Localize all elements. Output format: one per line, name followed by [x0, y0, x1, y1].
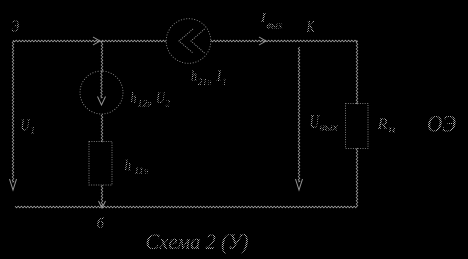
svg-text:б: б: [97, 216, 105, 232]
wire middle branch lower (h11э to bottom rail): [101, 185, 103, 206]
wire top rail right (current source to node К corner): [211, 40, 357, 42]
voltage arrow Uвых: [296, 47, 303, 190]
svg-text:21э: 21э: [198, 78, 212, 88]
svg-text:h: h: [131, 90, 137, 107]
label h21э I1: [191, 68, 227, 88]
wire right drop lower (Rн bottom to bottom rail): [356, 148, 358, 207]
current direction arrow at base node Б: [99, 201, 106, 208]
svg-text:12э: 12э: [138, 100, 152, 110]
svg-text:I: I: [216, 68, 223, 85]
svg-text:2: 2: [166, 100, 171, 110]
svg-text:1: 1: [31, 126, 36, 137]
svg-text:1: 1: [223, 78, 227, 88]
dependent voltage source circle h12э·U2: [80, 71, 123, 114]
svg-text:Э: Э: [12, 17, 20, 36]
voltage arrow U1: [10, 41, 17, 190]
resistor h11э: [89, 142, 112, 186]
svg-text:вых: вых: [267, 20, 283, 32]
current direction arrow Iвых: [259, 37, 266, 45]
wire right drop upper (К corner to Rн top): [356, 41, 358, 104]
wire middle branch upper (node to voltage source): [101, 41, 103, 72]
wire bottom rail (Б rail): [15, 206, 357, 208]
label h11э: [125, 158, 149, 178]
label h12э U2: [131, 90, 171, 110]
svg-text:h: h: [125, 158, 132, 175]
resistor Rн: [346, 104, 369, 149]
label Rн: [376, 116, 395, 136]
label U1: [21, 116, 36, 137]
label Iвых: [259, 11, 282, 32]
wire top rail left (node Э to current source): [13, 40, 166, 42]
svg-text:вых: вых: [320, 123, 339, 134]
svg-text:н: н: [389, 125, 396, 136]
svg-text:U: U: [21, 116, 31, 135]
svg-text:Схема 2 (У): Схема 2 (У): [146, 229, 249, 254]
svg-text:К: К: [306, 17, 316, 36]
svg-text:R: R: [376, 116, 388, 133]
svg-text:h: h: [191, 68, 197, 85]
svg-text:11э: 11э: [134, 167, 149, 177]
dependent current source circle h21э·I1: [166, 19, 211, 64]
label Uвых: [310, 112, 339, 134]
current direction arrow at input node: [93, 37, 100, 45]
svg-text:ОЭ: ОЭ: [427, 112, 456, 137]
wire middle branch mid (voltage source to h11э): [101, 114, 103, 142]
